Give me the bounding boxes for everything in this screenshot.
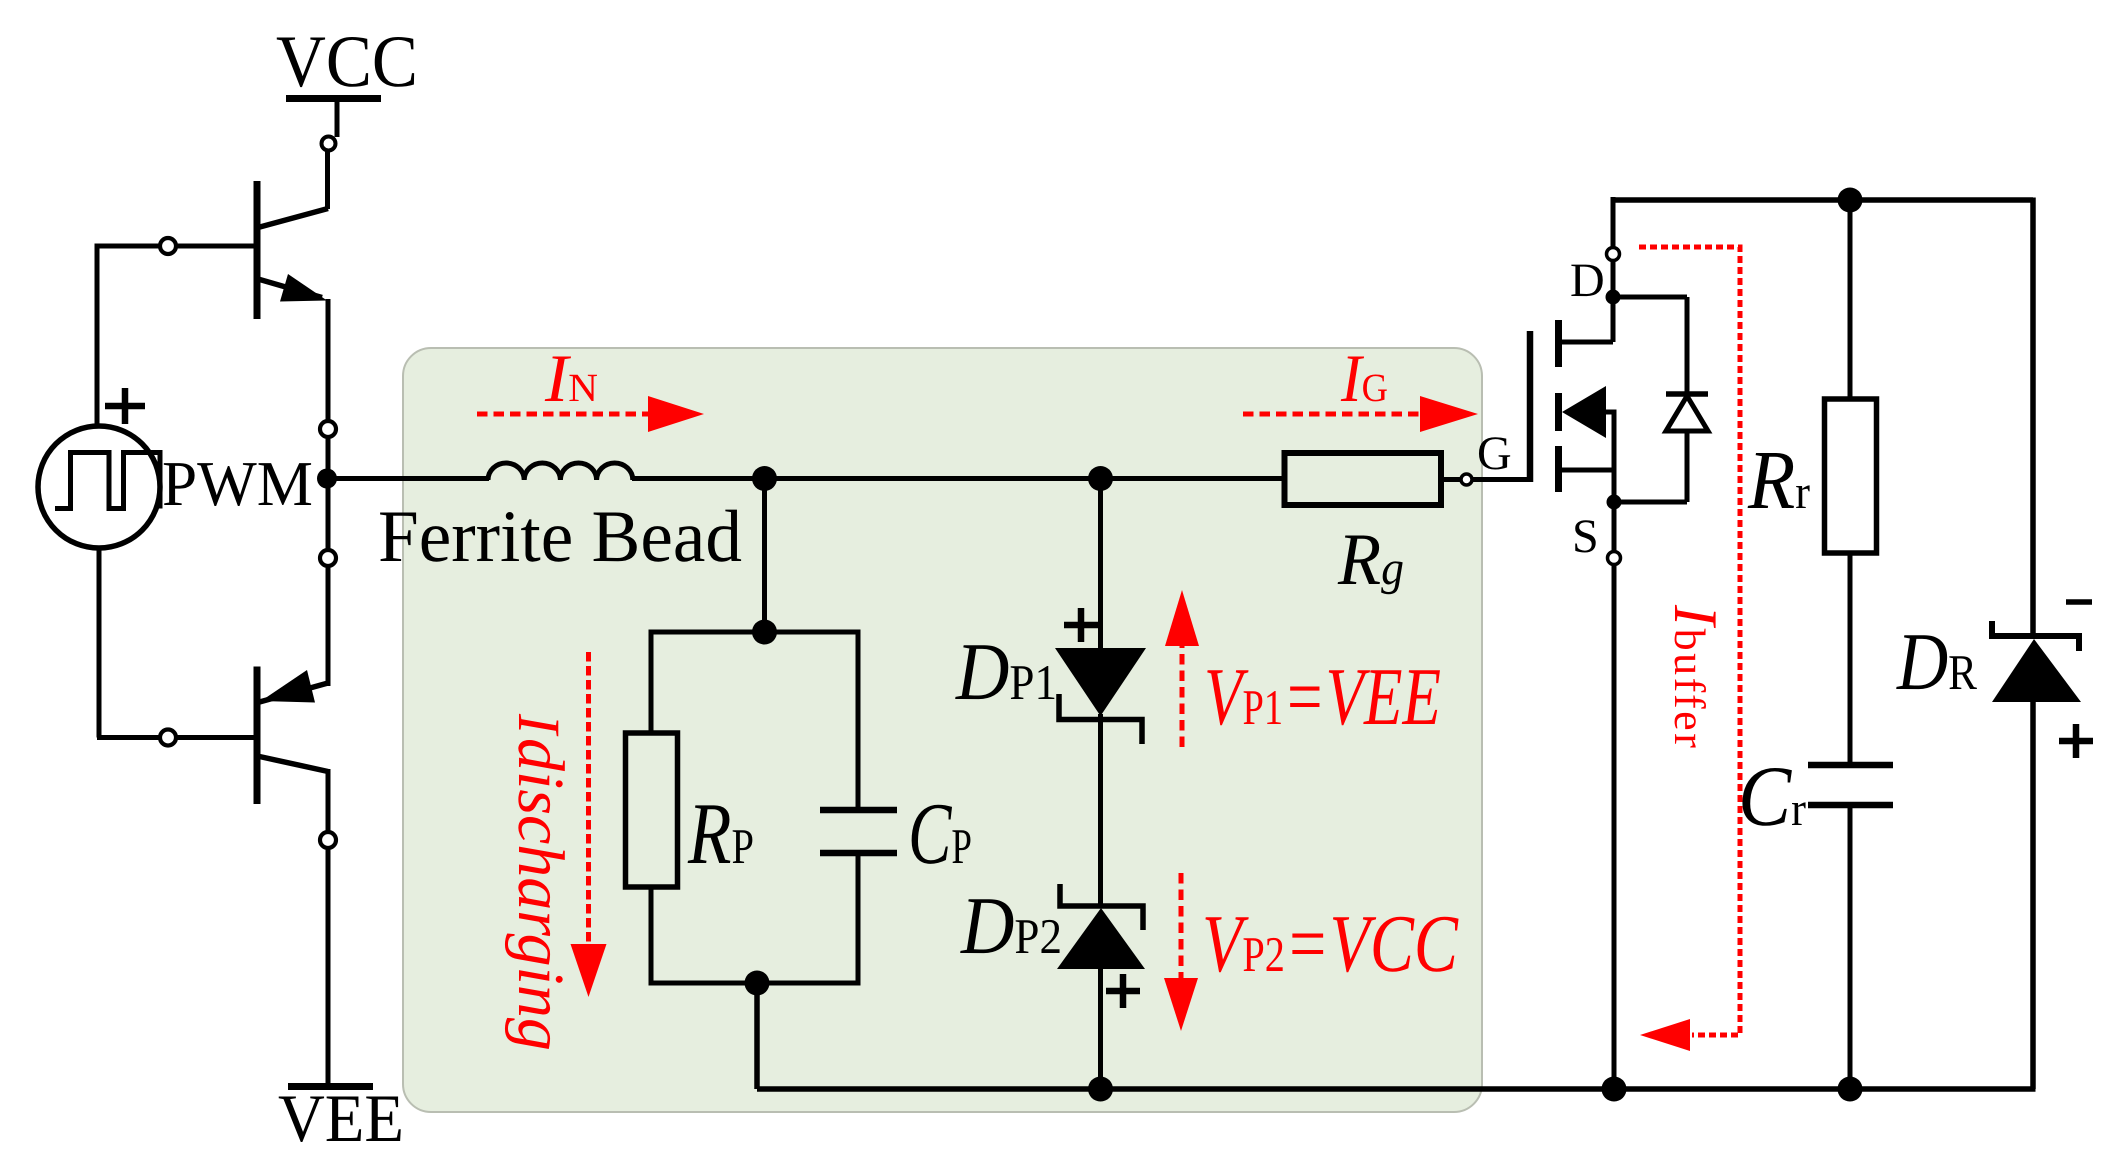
svg-text:VEE: VEE xyxy=(278,1080,404,1156)
junction diode branch bottom xyxy=(1088,1077,1113,1102)
I buffer path (red dashed) xyxy=(1639,247,1740,1035)
wire RP bottom xyxy=(649,887,654,986)
source node dot xyxy=(1607,495,1622,510)
terminal circle driver output lower xyxy=(320,550,336,566)
resistor Rr body xyxy=(1825,399,1877,553)
wire base column down to PWM source xyxy=(95,244,100,428)
wire DP1 to DP2 xyxy=(1098,714,1103,908)
wire Q1 emitter down xyxy=(326,299,331,421)
ferrite bead inductor xyxy=(488,463,633,480)
wire D to drain node xyxy=(1611,261,1616,297)
junction PWM output node xyxy=(317,469,337,489)
IN arrow (red dashed right) xyxy=(477,412,650,417)
wire rail to Rr xyxy=(1848,200,1853,399)
wire PWM node to ferrite bead xyxy=(327,476,489,481)
terminal circle Q2 base xyxy=(160,730,176,746)
plus sign DP1 xyxy=(1064,608,1098,642)
wire PWM source bottom down xyxy=(97,546,102,738)
wire source node to body diode xyxy=(1614,500,1687,505)
junction RC top xyxy=(752,620,777,645)
terminal circle S xyxy=(1608,552,1621,565)
drain node dot xyxy=(1606,290,1621,305)
terminal circle driver output upper xyxy=(320,421,336,437)
diode DP2 (Zener, cathode up) xyxy=(1057,908,1145,969)
wire Q1 base xyxy=(97,244,160,249)
bottom rail xyxy=(757,1086,2036,1092)
plus sign PWM xyxy=(105,388,145,424)
resistor Rg body xyxy=(1285,453,1442,505)
snubber network region (green box) xyxy=(403,348,1482,1112)
IG arrow (red dashed right) xyxy=(1243,412,1422,417)
VEE rail bar xyxy=(288,1083,373,1090)
wire top rail right corner down xyxy=(2030,198,2036,638)
junction RC bottom xyxy=(745,971,770,996)
svg-text:DR: DR xyxy=(1896,616,1977,707)
wire source to S terminal xyxy=(1612,502,1617,551)
wire Rg to G terminal xyxy=(1441,477,1460,482)
DP2 zener bar xyxy=(1060,884,1143,930)
body diode xyxy=(1666,297,1708,502)
svg-text:Idischarging: Idischarging xyxy=(504,713,577,1051)
svg-text:Cr: Cr xyxy=(1738,748,1806,844)
svg-text:PWM: PWM xyxy=(162,448,313,519)
terminal circle Q2 collector xyxy=(320,832,336,848)
wire drain terminal xyxy=(1611,197,1616,247)
resistor RP body xyxy=(626,733,678,887)
wire terminal to Q1 collector xyxy=(325,151,330,209)
svg-text:D: D xyxy=(1570,254,1605,307)
MOSFET M1 xyxy=(1530,320,1617,502)
wire terminal down to Q2 emitter xyxy=(326,566,331,686)
terminal circle G xyxy=(1461,474,1472,485)
wire drain node to channel xyxy=(1611,297,1616,342)
wire RC bottom to ground rail xyxy=(754,983,760,1089)
resistor RP branch xyxy=(649,630,654,734)
junction bottom rail at Cr xyxy=(1838,1077,1863,1102)
diode DR (Zener, cathode up) xyxy=(1992,621,2079,651)
wire driver output lower xyxy=(326,487,331,550)
wire Q2 collector down xyxy=(326,769,331,832)
svg-text:Ferrite Bead: Ferrite Bead xyxy=(378,496,742,578)
svg-text:VP2=VCC: VP2=VCC xyxy=(1202,898,1459,989)
wire bead to Rg xyxy=(632,476,1284,481)
terminal circle VCC-collector xyxy=(322,137,336,151)
diode DP1 (Zener, cathode down) xyxy=(1055,648,1146,716)
terminal circle D xyxy=(1607,248,1620,261)
wire G to gate xyxy=(1472,477,1532,482)
wire drain node to body diode xyxy=(1613,295,1687,300)
junction node A (bead / RC branch) xyxy=(752,466,777,491)
plus sign DR xyxy=(2059,724,2093,758)
RC top rail xyxy=(651,630,858,635)
svg-text:VP1=VEE: VP1=VEE xyxy=(1204,651,1441,742)
transistor Q1 (NPN, upper driver) xyxy=(257,181,328,319)
svg-text:S: S xyxy=(1572,510,1599,563)
DP1 zener bar xyxy=(1059,694,1142,744)
wire Rr to Cr xyxy=(1848,553,1853,765)
svg-text:G: G xyxy=(1477,427,1512,480)
junction top rail xyxy=(1838,188,1863,213)
wire S terminal down to rail xyxy=(1612,565,1617,1089)
wire CP bottom xyxy=(856,853,861,986)
wire node A down to RC network xyxy=(762,479,767,633)
wire DP2 down to rail xyxy=(1098,967,1103,1089)
terminal circle Q1 base xyxy=(160,238,176,254)
capacitor Cr plates xyxy=(1808,762,1893,769)
svg-text:Rr: Rr xyxy=(1747,434,1810,527)
junction bottom rail at source xyxy=(1602,1077,1627,1102)
wire DR down to rail xyxy=(2030,702,2036,1089)
RC bottom rail xyxy=(651,981,858,986)
capacitor CP plates xyxy=(820,807,897,814)
wire node B down to DP1 xyxy=(1098,479,1103,651)
PWM source circle xyxy=(38,426,160,548)
VP1 arrow (red dashed up) xyxy=(1180,644,1185,747)
PWM square wave xyxy=(55,453,160,509)
svg-text:VCC: VCC xyxy=(276,21,418,103)
VP2 arrow (red dashed down) xyxy=(1179,873,1184,980)
minus sign DR xyxy=(2066,599,2092,605)
wire VCC to terminal xyxy=(335,100,340,137)
capacitor CP branch xyxy=(856,630,861,811)
transistor Q2 (PNP, lower driver) xyxy=(257,667,328,805)
wire Cr to rail xyxy=(1848,805,1853,1089)
I discharging arrow (red dashed) xyxy=(586,652,591,946)
wire terminal to PWM node xyxy=(326,437,331,470)
junction node B (diode branch top) xyxy=(1088,466,1113,491)
wire to Q2 base xyxy=(97,735,160,740)
top rail xyxy=(1613,197,2033,203)
plus sign DP2 xyxy=(1106,974,1140,1008)
VCC rail bar xyxy=(286,95,381,102)
wire to VEE xyxy=(326,848,331,1084)
svg-text:Ibuffer: Ibuffer xyxy=(1661,604,1729,750)
